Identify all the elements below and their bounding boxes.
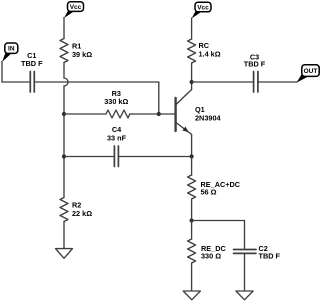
svg-text:OUT: OUT xyxy=(304,68,318,75)
node bias R3 junction xyxy=(62,112,66,116)
wire collector diagonal vertical xyxy=(191,82,193,90)
svg-text:330 kΩ: 330 kΩ xyxy=(104,97,128,106)
label C3 xyxy=(244,52,266,68)
resistor RE_DC xyxy=(188,239,196,263)
wire Vcc to R1 xyxy=(63,18,65,39)
resistor RE_AC+DC xyxy=(188,175,196,199)
resistor R2 xyxy=(60,198,68,222)
wire RC to collector node xyxy=(191,63,193,82)
label RC xyxy=(199,41,221,59)
power flag Vcc left xyxy=(64,2,84,18)
label RE_AC+DC xyxy=(201,180,241,197)
capacitor C4 xyxy=(114,146,118,167)
svg-text:33 nF: 33 nF xyxy=(107,134,127,143)
label R2 xyxy=(72,201,92,218)
ground below C2 xyxy=(236,291,253,300)
svg-text:39 kΩ: 39 kΩ xyxy=(72,50,92,59)
wire R1 down to hop xyxy=(63,63,65,79)
wire IN to C1 xyxy=(2,81,30,83)
wire emitter down xyxy=(191,135,193,157)
wire to C4 xyxy=(64,156,114,158)
resistor R1 xyxy=(60,39,68,63)
wire RE_DC to ground xyxy=(191,263,193,291)
ground below RE_DC xyxy=(183,291,200,300)
wire hop over input wire xyxy=(64,78,68,86)
node bias C4 junction xyxy=(62,154,66,158)
wire emitter node to RE_AC+DC xyxy=(191,157,193,176)
resistor RC xyxy=(188,39,196,63)
resistor R3 xyxy=(106,110,130,118)
svg-text:TBD F: TBD F xyxy=(21,59,43,68)
ground below R2 xyxy=(56,249,73,259)
wire base node to Q1 xyxy=(159,113,175,115)
wire node to RE_DC xyxy=(191,221,193,240)
capacitor C3 xyxy=(254,72,258,93)
wire to R3 xyxy=(64,113,106,115)
label C1 xyxy=(21,51,43,68)
port flag IN xyxy=(2,43,18,62)
svg-text:1.4 kΩ: 1.4 kΩ xyxy=(199,50,221,59)
node base junction xyxy=(157,112,161,116)
label Q1 xyxy=(195,105,222,123)
power flag Vcc right xyxy=(192,2,211,18)
svg-text:2N3904: 2N3904 xyxy=(195,113,222,122)
svg-text:Vcc: Vcc xyxy=(197,4,209,11)
svg-text:TBD F: TBD F xyxy=(244,59,266,68)
wire C4 to emitter node xyxy=(119,156,191,158)
port flag OUT xyxy=(297,65,320,83)
svg-text:22 kΩ: 22 kΩ xyxy=(72,209,92,218)
label R1 xyxy=(72,42,92,59)
wire C2 vertical top xyxy=(244,221,246,249)
capacitor C1 xyxy=(30,72,34,93)
svg-text:330 Ω: 330 Ω xyxy=(201,251,221,260)
transistor Q1 xyxy=(176,90,192,135)
svg-text:TBD F: TBD F xyxy=(259,252,281,261)
node RE junction xyxy=(190,218,194,222)
wire IN vertical xyxy=(1,62,3,83)
label C2 xyxy=(259,244,281,260)
wire hop down to R2 xyxy=(63,86,65,198)
wire collector to C3 xyxy=(192,81,253,83)
svg-text:56 Ω: 56 Ω xyxy=(201,188,217,197)
wire corner down to base node xyxy=(158,82,160,114)
node collector junction xyxy=(190,80,194,84)
wire Vcc to RC xyxy=(191,18,193,39)
svg-text:Vcc: Vcc xyxy=(70,4,82,11)
wire C2 to ground xyxy=(244,254,246,291)
wire R2 to ground xyxy=(63,222,65,249)
node emitter junction xyxy=(190,154,194,158)
wire node to C2 xyxy=(192,220,245,222)
wire R3 to base node xyxy=(130,113,159,115)
label R3 xyxy=(104,89,128,106)
label RE_DC xyxy=(201,244,226,261)
capacitor C2 xyxy=(234,250,257,254)
wire RE_AC+DC to node xyxy=(191,199,193,221)
wire C1 to base corner xyxy=(35,81,159,83)
label C4 xyxy=(107,125,127,142)
svg-text:IN: IN xyxy=(8,46,15,53)
wire C3 to OUT xyxy=(259,81,297,83)
